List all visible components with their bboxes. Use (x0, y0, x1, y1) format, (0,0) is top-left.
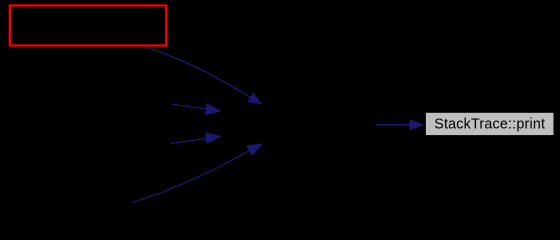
svg-text:StackTrace::print: StackTrace::print (434, 116, 545, 132)
